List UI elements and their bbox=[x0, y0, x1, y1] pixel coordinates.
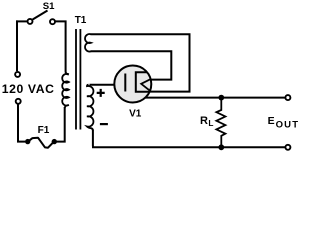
wire: tube cathode to output (top wire) bbox=[145, 97, 285, 99]
svg-text:120 VAC: 120 VAC bbox=[2, 82, 55, 96]
plate of V1 bbox=[124, 74, 126, 92]
wire: filament winding top lead across and down to tube filament lower pin bbox=[91, 33, 191, 91]
svg-text:T1: T1 bbox=[75, 15, 87, 26]
fuse F1 bbox=[25, 138, 57, 148]
terminal: E OUT top bbox=[285, 95, 290, 100]
wire: secondary + lead to tube plate bbox=[90, 84, 126, 86]
svg-text:OUT: OUT bbox=[276, 119, 300, 130]
label - (secondary polarity) bbox=[100, 123, 108, 125]
transformer T1 primary winding bbox=[62, 74, 69, 108]
terminal: 120 VAC lower bbox=[16, 99, 21, 104]
wire: switch to transformer primary corner bbox=[55, 20, 69, 74]
terminal: 120 VAC upper bbox=[15, 72, 20, 77]
wire: secondary - lead down and right (bottom wire) bbox=[92, 130, 285, 148]
wire: lower input terminal down to fuse corner bbox=[17, 104, 25, 141]
junction: RL top node bbox=[218, 95, 224, 101]
resistor RL bbox=[216, 98, 225, 148]
svg-text:L: L bbox=[208, 118, 213, 128]
filament of V1 bbox=[141, 79, 151, 91]
svg-text:F1: F1 bbox=[38, 125, 50, 136]
svg-text:E: E bbox=[268, 115, 275, 127]
transformer core bbox=[76, 29, 80, 130]
svg-text:R: R bbox=[200, 115, 208, 127]
label + (secondary polarity) bbox=[97, 89, 105, 97]
transformer T1 secondary winding bbox=[87, 85, 93, 131]
svg-text:S1: S1 bbox=[43, 1, 55, 12]
terminal: E OUT bottom bbox=[285, 145, 290, 150]
wire: left rail down to upper input terminal bbox=[16, 20, 18, 71]
wire: filament winding bottom lead down to tube filament upper pin bbox=[91, 50, 173, 79]
switch S1 bbox=[28, 11, 56, 25]
svg-text:V1: V1 bbox=[129, 108, 142, 119]
junction: RL bottom node bbox=[218, 144, 224, 150]
transformer T1 filament winding bbox=[85, 34, 91, 52]
vacuum tube V1 bbox=[114, 66, 151, 103]
wire: fuse to primary bottom bbox=[54, 107, 64, 143]
wire: top-left horizontal from left rail corner to switch bbox=[16, 20, 27, 22]
cathode sleeve of V1 bbox=[136, 72, 150, 92]
